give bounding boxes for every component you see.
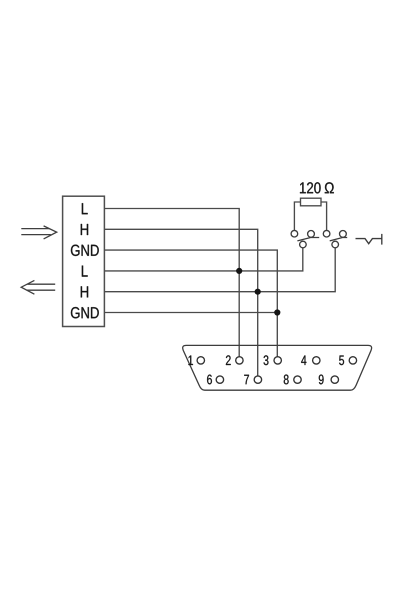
pin 5 (349, 357, 356, 364)
arrow receive (left) (21, 280, 55, 294)
pin 1 (197, 357, 204, 364)
terminal label GND (71, 245, 99, 256)
transceiver terminal box U1 (63, 196, 105, 326)
terminal label L (82, 203, 88, 214)
wire GND2 to GND1 junction (105, 312, 278, 314)
pin 4 (313, 357, 320, 364)
pin number 2 (226, 355, 231, 365)
resistor R1 120 Ohm (294, 198, 326, 230)
pin 3 (274, 357, 281, 364)
arrow transmit (right) (21, 226, 56, 239)
pin number 7 (244, 375, 249, 384)
pin number 9 (319, 375, 324, 385)
wire H1 to pin7 (105, 229, 258, 376)
terminal label H (81, 224, 88, 235)
pin number 3 (264, 355, 269, 365)
switch actuator link (356, 234, 382, 245)
pin number 8 (284, 375, 289, 385)
terminal label GND (71, 307, 99, 318)
pin number 1 (188, 356, 192, 365)
terminal label L (82, 266, 88, 277)
terminal label H (81, 286, 88, 297)
switch S2 (termination H) (323, 230, 347, 247)
pin number 6 (207, 375, 212, 385)
pin 9 (331, 376, 338, 383)
value label 120 (300, 182, 321, 193)
wire GND1 to pin3 (105, 250, 278, 357)
junction dot L (237, 268, 242, 273)
wire L1 to pin2 (105, 209, 240, 358)
pin 8 (294, 376, 301, 383)
value label Ohm (325, 182, 334, 193)
pin number 5 (339, 356, 344, 366)
junction dot GND (275, 310, 280, 315)
pin number 4 (301, 356, 306, 365)
pin 6 (216, 376, 223, 383)
pin 2 (236, 357, 243, 364)
DB9 connector body X1 (183, 345, 372, 390)
junction dot H (255, 289, 260, 294)
wire H2 to switch S2 (105, 248, 336, 292)
switch S1 (termination L) (291, 230, 319, 247)
wire L2 to switch S1 (105, 248, 303, 271)
pin 7 (254, 376, 261, 383)
